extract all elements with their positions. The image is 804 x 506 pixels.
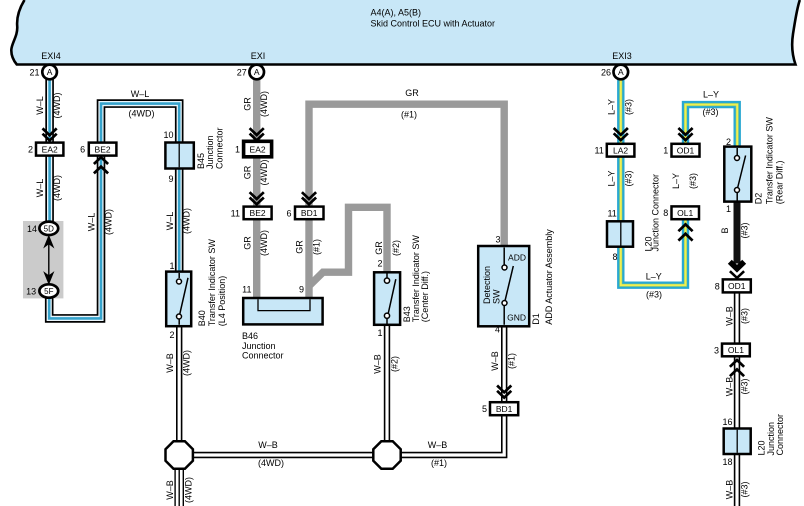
svg-text:OD1: OD1 <box>728 281 746 291</box>
svg-text:27: 27 <box>237 68 247 78</box>
svg-text:(4WD): (4WD) <box>259 230 269 256</box>
actuator D1 ADD Actuator Assembly with Detection SW, pins3/4 <box>478 235 529 335</box>
arrow down solid on B wire before OD1 pin8 <box>730 262 744 278</box>
svg-text:2: 2 <box>726 137 731 147</box>
svg-text:Junction Connector: Junction Connector <box>651 174 661 252</box>
svg-text:(4WD): (4WD) <box>184 477 194 503</box>
svg-text:BD1: BD1 <box>301 208 318 218</box>
svg-text:3: 3 <box>495 235 500 245</box>
svg-text:(#2): (#2) <box>391 240 401 256</box>
label GR (#1) horizontal bus <box>401 88 419 120</box>
svg-text:ADD: ADD <box>508 253 526 263</box>
svg-text:L–Y: L–Y <box>671 173 681 189</box>
junction connector B45 pins10/9 <box>163 130 193 184</box>
junction connector B46 pins11/9 <box>242 285 322 325</box>
label W-B (4WD) node1-node2 <box>258 440 284 468</box>
svg-text:(4WD): (4WD) <box>258 458 284 468</box>
svg-text:11: 11 <box>242 285 251 295</box>
svg-text:Transfer Indicator SW: Transfer Indicator SW <box>765 117 775 205</box>
svg-text:5D: 5D <box>44 224 54 233</box>
svg-text:EA2: EA2 <box>250 144 266 154</box>
svg-text:2: 2 <box>169 330 174 340</box>
label B46 Junction Connector <box>242 331 284 361</box>
label W-L (4WD) top of EXI4 drop <box>35 93 62 119</box>
label L20 Junction Connector (top) <box>644 174 661 252</box>
arrow down on GR before BD1 <box>302 192 316 204</box>
connector 11 LA2 <box>594 144 634 157</box>
junction connector L20 (bottom) pins16/18 <box>722 417 750 467</box>
svg-text:GR: GR <box>242 236 252 250</box>
svg-text:(4WD): (4WD) <box>104 209 114 235</box>
svg-text:W–L: W–L <box>35 96 45 115</box>
svg-text:5F: 5F <box>44 287 53 296</box>
svg-text:(L4 Position): (L4 Position) <box>217 276 227 327</box>
arrow down on W-L before EA2 <box>43 128 57 140</box>
connector circle A pin21 (EXI4) <box>29 65 56 80</box>
svg-text:(#1): (#1) <box>431 458 447 468</box>
label W-B (#1) node2-BD1 <box>428 440 448 468</box>
wire link arrow between 5D and 5F <box>43 235 54 285</box>
svg-text:D2: D2 <box>754 193 764 205</box>
svg-text:(4WD): (4WD) <box>182 350 192 376</box>
svg-text:(#3): (#3) <box>623 170 633 186</box>
svg-text:18: 18 <box>722 457 732 467</box>
svg-text:EA2: EA2 <box>42 144 58 154</box>
wire GR net: EXI pin27 down through EA2, BE2 to B46 pin11 <box>253 79 260 298</box>
svg-text:9: 9 <box>299 285 304 295</box>
svg-text:BE2: BE2 <box>95 144 111 154</box>
svg-text:11: 11 <box>607 209 616 219</box>
svg-text:W–B: W–B <box>373 354 383 374</box>
label B45 Junction Connector <box>196 127 225 169</box>
label GR (#1) BD1 to B46 <box>295 239 322 255</box>
svg-text:SW: SW <box>492 289 502 304</box>
wire W-B net: OD1 pin8 down through OL1 pin3, L20 pin16-18, off page bottom <box>734 292 740 506</box>
label D2 Transfer Indicator SW (Rear Diff.) <box>754 117 785 205</box>
svg-text:9: 9 <box>168 174 173 184</box>
connector 1 EA2 (shielded) <box>235 141 272 157</box>
connector 5 BD1 <box>482 402 518 415</box>
svg-text:6: 6 <box>80 145 85 155</box>
svg-text:26: 26 <box>601 68 611 78</box>
svg-text:11: 11 <box>231 208 240 218</box>
wire W-L net: EXI4 pin21 to EA2, EA2 to 5D, 5F down-right-up to BE2 <box>49 79 101 318</box>
label W-L (4WD) B45 to B40 <box>165 208 192 234</box>
label W-B (#2) B43 to node2 <box>373 354 400 374</box>
label W-B (#3) OD1 to OL1 right <box>725 306 750 326</box>
svg-text:10: 10 <box>163 130 173 140</box>
svg-text:(Center Diff.): (Center Diff.) <box>420 271 430 322</box>
svg-text:11: 11 <box>594 146 603 156</box>
label B40 Transfer Indicator SW (L4 Position) <box>197 239 227 327</box>
wire W-L net: BE2 up, across to B45 junction pin10, down through pin9 to B40 pin1 <box>101 104 179 272</box>
wire L-Y net: OD1 pin1 up, across, down to D2 pin2 <box>686 105 738 147</box>
wire B net: D2 pin1 down to arrow into OD1 pin8 <box>734 203 741 264</box>
svg-text:(4WD): (4WD) <box>259 160 269 186</box>
svg-text:GR: GR <box>374 241 384 255</box>
wire GR net: horizontal bus to BD1 and down to D1 pin3, BD1 down to B46 pin9 <box>309 104 504 298</box>
svg-text:Skid Control ECU with Actuator: Skid Control ECU with Actuator <box>371 19 496 29</box>
connector circle A pin26 (EXI3) <box>601 65 628 80</box>
label W-B (#3) L20 down <box>725 480 750 500</box>
svg-text:EXI: EXI <box>251 51 266 61</box>
svg-text:3: 3 <box>714 346 719 356</box>
arrow down on GR before EA2 <box>250 128 264 140</box>
svg-text:L–Y: L–Y <box>646 272 662 282</box>
svg-text:GND: GND <box>507 313 526 323</box>
svg-text:(#2): (#2) <box>390 356 400 372</box>
switch B43 Transfer Indicator SW (Center Diff.) pins2/1 <box>374 259 400 339</box>
svg-text:OD1: OD1 <box>677 145 695 155</box>
svg-text:(#3): (#3) <box>688 173 698 189</box>
svg-text:LA2: LA2 <box>613 145 628 155</box>
svg-text:(#1): (#1) <box>401 110 417 120</box>
svg-text:(4WD): (4WD) <box>52 93 62 119</box>
wire W-B net: B40 pin2 down to junction node, across to node2, node2 up to B43 pin1, node2 right-up to BD1 pin5, node1 down off page <box>179 324 504 506</box>
arrow up on L-Y below OL1 pin8 <box>678 224 692 240</box>
label L-Y (#3) LA2 to L20 <box>606 170 633 186</box>
connector 3 OL1 (right) <box>714 344 750 357</box>
svg-text:(#1): (#1) <box>312 239 322 255</box>
svg-text:1: 1 <box>377 328 382 338</box>
label GR (4WD) EA2 to BE2 <box>242 160 269 186</box>
svg-text:GR: GR <box>405 88 419 98</box>
label L-Y (#3) bottom run L20 to OL1 <box>646 272 662 300</box>
svg-text:A4(A), A5(B): A4(A), A5(B) <box>371 8 422 18</box>
svg-text:W–L: W–L <box>87 213 97 232</box>
label W-B (4WD) node1 down <box>165 477 194 503</box>
svg-text:5: 5 <box>482 404 487 414</box>
svg-text:OL1: OL1 <box>677 208 693 218</box>
svg-text:B40: B40 <box>197 310 207 326</box>
svg-text:16: 16 <box>722 417 732 427</box>
svg-text:W–L: W–L <box>35 179 45 198</box>
svg-text:BD1: BD1 <box>496 404 513 414</box>
wire L-Y net: EXI3 pin26 down through LA2, L20 pin11-8, right and up to OL1 pin8 <box>621 79 686 285</box>
label L-Y (#3) OD1 to OL1 <box>671 173 698 189</box>
connector 8 OL1 <box>663 206 699 219</box>
label W-B (#1) D1 to BD1 <box>490 351 517 371</box>
svg-text:W–B: W–B <box>490 351 500 371</box>
svg-text:(#3): (#3) <box>740 308 750 324</box>
svg-text:D1: D1 <box>531 313 541 325</box>
arrow down on GR before BE2 <box>250 192 264 204</box>
svg-text:1: 1 <box>663 146 668 156</box>
svg-text:1: 1 <box>235 145 240 155</box>
label W-L (4WD) below EA2 <box>35 175 62 201</box>
svg-text:(#1): (#1) <box>507 353 517 369</box>
arrow down on L-Y before LA2 <box>614 128 628 140</box>
arrow up on W-L below BE2 <box>94 157 108 173</box>
svg-text:2: 2 <box>28 145 33 155</box>
svg-text:W–B: W–B <box>725 306 735 326</box>
label GR (#2) branch to B43 <box>374 240 401 256</box>
svg-text:Transfer Indicator SW: Transfer Indicator SW <box>207 239 217 327</box>
switch B40 Transfer Indicator SW (L4 Position) pins1/2 <box>166 261 191 340</box>
svg-text:W–B: W–B <box>428 440 448 450</box>
svg-text:Connector: Connector <box>242 351 284 361</box>
wire GR branch: B46 pin9 up to B43 pin2 <box>310 207 388 285</box>
svg-text:Junction: Junction <box>242 341 276 351</box>
label W-L horizontal run BE2-B45 <box>129 89 155 119</box>
svg-text:W–L: W–L <box>165 212 175 231</box>
svg-text:B: B <box>720 227 730 233</box>
node 5D pin14 <box>27 222 58 235</box>
svg-text:(#3): (#3) <box>740 378 750 394</box>
svg-text:W–B: W–B <box>725 480 735 500</box>
svg-text:(#3): (#3) <box>740 222 750 238</box>
label W-L (4WD) below BE2 <box>87 209 114 235</box>
label L-Y (#3) horizontal to D2 <box>702 90 719 118</box>
svg-text:EXI3: EXI3 <box>612 51 632 61</box>
svg-text:8: 8 <box>715 281 720 291</box>
svg-text:A: A <box>47 67 53 77</box>
switch D2 Transfer Indicator SW (Rear Diff.) pins2/1 <box>724 137 751 214</box>
svg-text:EXI4: EXI4 <box>41 51 61 61</box>
arrow up on W-B below OL1 pin3 <box>730 360 744 376</box>
label L20 Junction Connector (bottom) <box>757 414 786 456</box>
svg-text:13: 13 <box>26 287 36 297</box>
svg-text:L–Y: L–Y <box>703 90 719 100</box>
svg-text:8: 8 <box>663 208 668 218</box>
label W-B (#3) OL1 to L20 right <box>725 377 750 397</box>
svg-text:1: 1 <box>726 204 731 214</box>
label D1 ADD Actuator Assembly <box>531 229 554 325</box>
svg-text:B46: B46 <box>242 331 258 341</box>
svg-text:(#3): (#3) <box>702 107 718 117</box>
svg-text:(4WD): (4WD) <box>259 91 269 117</box>
junction connector L20 pins11/8 <box>607 209 633 262</box>
svg-text:(4WD): (4WD) <box>52 175 62 201</box>
svg-text:W–B: W–B <box>725 377 735 397</box>
connector 6 BE2 <box>80 143 116 156</box>
svg-text:L–Y: L–Y <box>606 170 616 186</box>
svg-text:W–B: W–B <box>165 353 175 373</box>
svg-text:(#3): (#3) <box>646 290 662 300</box>
connector 6 BD1 <box>286 207 323 220</box>
svg-text:2: 2 <box>377 259 382 269</box>
svg-text:14: 14 <box>27 224 37 234</box>
label GR (4WD) above EA2 <box>242 91 269 117</box>
connector 2 EA2 <box>28 143 63 156</box>
arrow down on L-Y before OD1 <box>678 128 692 140</box>
svg-text:GR: GR <box>295 240 305 254</box>
svg-text:W–L: W–L <box>131 89 150 99</box>
svg-text:21: 21 <box>29 68 39 78</box>
svg-text:(#3): (#3) <box>623 99 633 115</box>
junction node octagon 1 <box>166 441 193 468</box>
svg-text:(#3): (#3) <box>740 481 750 497</box>
svg-text:8: 8 <box>612 252 617 262</box>
svg-text:GR: GR <box>242 97 252 111</box>
svg-text:A: A <box>618 67 624 77</box>
svg-text:Connector: Connector <box>215 127 225 169</box>
connector circle A pin27 (EXI) <box>237 65 264 80</box>
label B43 Transfer Indicator SW (Center Diff.) <box>402 235 430 323</box>
connector 8 OD1 (right) <box>715 279 751 292</box>
svg-text:(4WD): (4WD) <box>182 208 192 234</box>
label L-Y (#3) EXI3 drop <box>606 99 633 115</box>
svg-text:6: 6 <box>286 208 291 218</box>
node 5F pin13 <box>26 284 58 297</box>
Skid Control ECU banner A4(A),A5(B) <box>11 0 800 65</box>
svg-text:(Rear Diff.): (Rear Diff.) <box>775 160 785 204</box>
label B (#3) D2 to OD1 <box>720 222 750 238</box>
svg-text:A: A <box>254 67 260 77</box>
svg-text:W–B: W–B <box>258 440 278 450</box>
svg-text:Connector: Connector <box>775 414 785 456</box>
label W-B (4WD) B40 to node1 <box>165 350 192 376</box>
label GR (4WD) BE2 to B46 <box>242 230 269 256</box>
connector 1 OD1 <box>663 144 699 157</box>
svg-text:OL1: OL1 <box>728 345 744 355</box>
junction node octagon 2 <box>373 441 400 468</box>
connector 11 BE2 <box>231 207 272 220</box>
svg-text:(4WD): (4WD) <box>129 109 155 119</box>
svg-text:GR: GR <box>242 165 252 179</box>
svg-text:4: 4 <box>495 325 500 335</box>
svg-text:BE2: BE2 <box>250 208 266 218</box>
svg-text:L–Y: L–Y <box>606 99 616 115</box>
svg-text:ADD Actuator Assembly: ADD Actuator Assembly <box>544 229 554 325</box>
arrow down on W-B before BD1 pin5 <box>497 386 511 398</box>
splice shade box for 5D/5F <box>23 221 63 298</box>
svg-text:1: 1 <box>169 261 174 271</box>
svg-text:Detection: Detection <box>482 266 492 304</box>
svg-text:W–B: W–B <box>165 480 175 500</box>
